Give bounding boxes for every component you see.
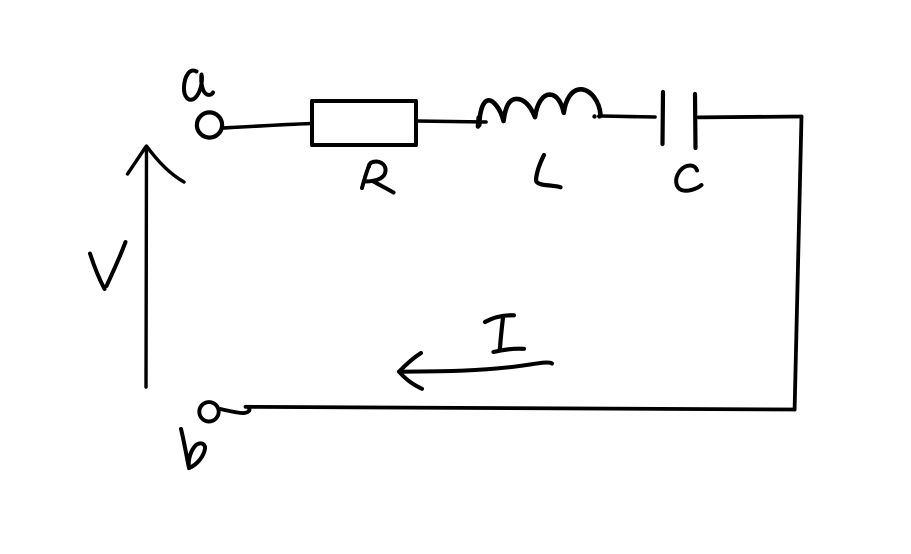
terminal a [197, 112, 222, 137]
wire b connector squiggle [221, 409, 250, 414]
inductor L [478, 89, 601, 126]
wire R to L [416, 121, 486, 122]
wire right side vertical [795, 117, 802, 410]
voltage arrow head [128, 146, 185, 182]
voltage arrow shaft [144, 147, 148, 388]
current arrow head [399, 353, 422, 389]
wire bottom [246, 407, 795, 410]
capacitor C value label [676, 165, 701, 190]
capacitor C right plate [693, 94, 698, 148]
inductor end dot [592, 114, 596, 118]
current I label [485, 315, 524, 352]
capacitor C left plate [660, 92, 665, 144]
node a label [184, 70, 213, 99]
resistor R value label [362, 162, 394, 193]
inductor L value label [536, 155, 561, 187]
wire C to top-right corner [699, 115, 802, 120]
voltage V label [90, 242, 126, 289]
resistor R [312, 101, 416, 145]
wire a to R [224, 124, 312, 129]
wire L to C [602, 116, 656, 117]
current arrow shaft [400, 363, 553, 372]
node b label [181, 429, 205, 468]
terminal b [199, 402, 218, 421]
